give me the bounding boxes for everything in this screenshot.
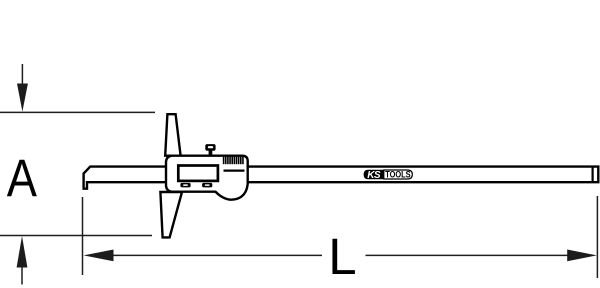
svg-text:L: L xyxy=(328,228,356,285)
svg-text:A: A xyxy=(7,149,37,208)
svg-text:TOOLS: TOOLS xyxy=(385,169,410,180)
svg-text:KS: KS xyxy=(367,170,381,181)
